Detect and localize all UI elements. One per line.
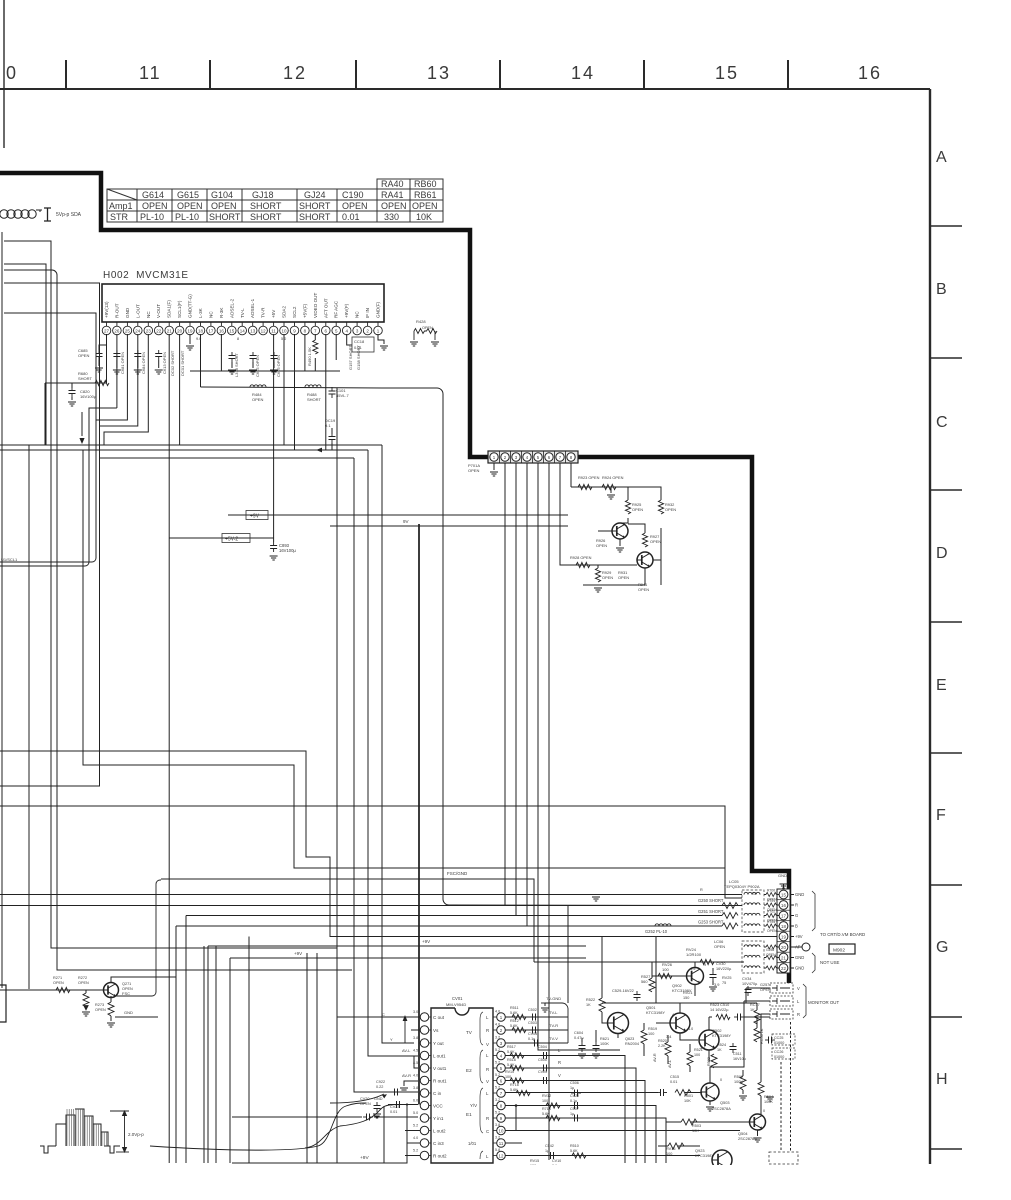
svg-text:R-3K: R-3K bbox=[219, 307, 224, 318]
svg-text:E: E bbox=[936, 677, 947, 694]
label RV21 bbox=[683, 991, 692, 1000]
svg-text:+9V: +9V bbox=[422, 939, 430, 944]
resistor R713 bbox=[546, 1115, 560, 1120]
connector pin 16 bbox=[777, 901, 790, 911]
svg-text:AV-R: AV-R bbox=[653, 1053, 657, 1062]
svg-text:RB60: RB60 bbox=[414, 179, 437, 189]
svg-text:FSC: FSC bbox=[122, 991, 130, 996]
svg-text:5.2: 5.2 bbox=[495, 1048, 500, 1052]
label C684 bbox=[141, 352, 146, 374]
CV01 left pin R out1 bbox=[420, 1076, 447, 1085]
label R271 bbox=[53, 976, 64, 985]
svg-text:R: R bbox=[558, 1060, 561, 1065]
svg-text:OPEN: OPEN bbox=[381, 201, 407, 211]
svg-text:14: 14 bbox=[571, 63, 595, 83]
svg-text:RV10: RV10 bbox=[505, 1070, 514, 1074]
svg-text:2.0Vp-p: 2.0Vp-p bbox=[128, 1132, 144, 1137]
svg-text:GJ18: GJ18 bbox=[252, 190, 274, 200]
svg-text:G252 PL-10: G252 PL-10 bbox=[645, 929, 668, 934]
svg-text:SDA1(F): SDA1(F) bbox=[167, 300, 172, 318]
wire pin27 +9V bbox=[45, 334, 107, 383]
svg-text:5.6K: 5.6K bbox=[542, 1112, 550, 1116]
svg-text:L-3K: L-3K bbox=[198, 307, 203, 318]
svg-text:4.0: 4.0 bbox=[495, 1023, 500, 1027]
wire bbox=[71, 397, 73, 400]
capacitor CV22 bbox=[571, 1102, 581, 1109]
transistor Q271 bbox=[104, 983, 119, 998]
resistor RC56 bbox=[754, 1028, 760, 1042]
wire RV24 row bbox=[534, 961, 744, 963]
svg-text:+5V: +5V bbox=[271, 309, 276, 318]
pin 10 of H002 bbox=[280, 306, 289, 335]
wire TV gnd loop bbox=[545, 1003, 568, 1043]
capacitor C604 bbox=[579, 1042, 586, 1052]
pin 15 of H002 bbox=[228, 298, 237, 334]
inductor LC05 row bbox=[744, 924, 760, 926]
wire pin stub bbox=[790, 915, 794, 917]
boxed part CC25 bbox=[772, 1034, 795, 1045]
svg-text:15: 15 bbox=[715, 63, 739, 83]
wire fan pin24 bbox=[100, 334, 138, 426]
wire base Q902 bbox=[652, 975, 687, 977]
svg-text:19: 19 bbox=[187, 328, 193, 333]
waveform staircase bbox=[40, 1109, 120, 1153]
wire pin3 drop bbox=[515, 463, 517, 916]
svg-text:100K: 100K bbox=[600, 1042, 609, 1046]
label R488 bbox=[307, 392, 321, 402]
label R941 bbox=[638, 582, 649, 592]
wire 9V vertical dark bbox=[418, 524, 420, 1105]
svg-text:Q271: Q271 bbox=[122, 982, 131, 986]
wire bbox=[742, 1090, 744, 1094]
svg-text:11: 11 bbox=[139, 63, 162, 83]
svg-text:4: 4 bbox=[672, 1013, 674, 1017]
wire Y in1 row left bbox=[232, 1116, 362, 1118]
wire bbox=[158, 360, 160, 368]
resistor R70x bbox=[766, 924, 776, 928]
label DC19 bbox=[325, 418, 336, 428]
svg-text:CV03: CV03 bbox=[528, 1032, 537, 1036]
label CV20 bbox=[360, 1097, 371, 1106]
svg-text:0.01: 0.01 bbox=[390, 1110, 397, 1114]
arrowhead down bbox=[79, 438, 84, 444]
wire base row bbox=[571, 486, 628, 488]
wire right vertical bbox=[660, 528, 662, 585]
resistor R680 bbox=[95, 380, 109, 385]
ground bbox=[578, 1054, 586, 1058]
delay line coil bbox=[0, 208, 51, 221]
capacitor C922 bbox=[391, 1089, 401, 1096]
svg-text:R428: R428 bbox=[416, 319, 426, 324]
label R519 bbox=[648, 1027, 657, 1036]
svg-text:GND: GND bbox=[374, 1097, 383, 1101]
ground bbox=[754, 1138, 762, 1142]
svg-text:AV-L: AV-L bbox=[668, 1060, 672, 1068]
transistor Q923 bbox=[712, 1150, 732, 1170]
wire emitter Q902 bbox=[694, 985, 696, 997]
svg-text:E2: E2 bbox=[466, 1068, 472, 1073]
svg-text:19: 19 bbox=[781, 934, 786, 939]
wire mid bus y371 bbox=[190, 370, 340, 372]
wire bbox=[273, 362, 275, 368]
label C101 bbox=[336, 388, 349, 398]
svg-text:NC: NC bbox=[146, 311, 151, 318]
label Q504 bbox=[738, 1131, 757, 1141]
CV01 right pin 8 bbox=[493, 1101, 505, 1110]
wire bbox=[137, 360, 139, 368]
label R484 bbox=[252, 392, 263, 402]
wire E2 L row bbox=[505, 1056, 625, 1164]
connector pin 20 bbox=[777, 943, 790, 953]
wire pin5 down bbox=[538, 463, 620, 1050]
pin 13 of H002 bbox=[248, 298, 257, 334]
ground bbox=[709, 987, 717, 991]
capacitor DC19 bbox=[329, 433, 336, 443]
ground bbox=[107, 1023, 115, 1027]
wire curve branch lower bbox=[305, 1126, 340, 1148]
wire C out feed bbox=[337, 1016, 420, 1018]
ground bbox=[410, 342, 418, 346]
capacitor C542 bbox=[547, 1152, 557, 1159]
ruler tick bbox=[209, 60, 211, 89]
waveform hatching bbox=[67, 1109, 106, 1146]
capacitor bbox=[765, 1037, 775, 1044]
svg-text:13: 13 bbox=[427, 63, 451, 83]
svg-text:R716: R716 bbox=[510, 1083, 519, 1087]
svg-text:G158 SHORT: G158 SHORT bbox=[356, 345, 361, 370]
resistor R273v bbox=[108, 1002, 114, 1016]
wire +9V drop x602 bbox=[601, 937, 603, 999]
wire left vertical x2 bbox=[1, 232, 3, 988]
wire pin19 bbox=[189, 334, 191, 344]
svg-text:MONITOR OUT: MONITOR OUT bbox=[808, 1000, 839, 1005]
capacitor C820 bbox=[69, 387, 76, 397]
svg-text:V out1: V out1 bbox=[433, 1066, 447, 1071]
connector pin 15 bbox=[777, 890, 790, 900]
ground bbox=[186, 346, 194, 350]
svg-text:R700: R700 bbox=[767, 889, 775, 893]
svg-text:5.2: 5.2 bbox=[495, 1111, 500, 1115]
CV01 right pin 2 bbox=[493, 1026, 505, 1035]
svg-text:OPEN: OPEN bbox=[632, 507, 643, 512]
dashed box LC06 bbox=[742, 941, 764, 973]
svg-text:+9V: +9V bbox=[795, 934, 803, 939]
resistor RV26 bbox=[658, 973, 672, 978]
svg-text:2SC2878A: 2SC2878A bbox=[712, 1106, 731, 1111]
label R501 bbox=[684, 1094, 693, 1103]
label R931 bbox=[618, 570, 629, 580]
label Q502 bbox=[712, 1028, 731, 1038]
svg-text:5.6K: 5.6K bbox=[570, 1149, 578, 1153]
wire pin stub bbox=[790, 946, 794, 948]
wire pin6 down bbox=[548, 463, 550, 1160]
svg-text:3.2: 3.2 bbox=[495, 1136, 500, 1140]
resistor R501h bbox=[675, 1090, 691, 1096]
wire 9V rail bbox=[330, 525, 568, 527]
label R490 bbox=[307, 347, 312, 366]
svg-text:V: V bbox=[558, 1073, 561, 1078]
svg-text:CC25: CC25 bbox=[774, 1036, 783, 1040]
capacitor C685 bbox=[96, 350, 103, 360]
svg-text:R520: R520 bbox=[658, 1039, 667, 1043]
wire arrow drop x82 bbox=[81, 412, 83, 436]
IC CV01 body bbox=[431, 1008, 493, 1163]
CV01 right pin 9 bbox=[493, 1114, 505, 1123]
svg-text:R out1: R out1 bbox=[433, 1078, 447, 1083]
svg-text:TV-L: TV-L bbox=[240, 308, 245, 318]
label G157 bbox=[348, 345, 353, 370]
svg-text:RV21: RV21 bbox=[683, 991, 692, 995]
svg-text:4.0: 4.0 bbox=[413, 1136, 418, 1140]
wire R out2 bbox=[405, 1155, 420, 1157]
label C506 bbox=[570, 1081, 579, 1090]
svg-text:RV12: RV12 bbox=[542, 1094, 551, 1098]
wire bbox=[764, 925, 766, 927]
svg-text:SHORT: SHORT bbox=[250, 212, 282, 222]
resistor R70x bbox=[766, 893, 776, 897]
label R927 bbox=[650, 534, 661, 544]
wire +9V left drop bbox=[44, 383, 46, 445]
svg-text:10K: 10K bbox=[416, 212, 432, 222]
svg-text:9: 9 bbox=[704, 962, 706, 967]
left sheet edge line bbox=[3, 0, 5, 148]
ground bbox=[594, 588, 602, 592]
svg-text:Q503: Q503 bbox=[720, 1100, 730, 1105]
label DC02 bbox=[170, 350, 175, 376]
svg-text:R511: R511 bbox=[510, 1006, 519, 1010]
wire x204 vertical bbox=[203, 946, 205, 1163]
label R273 bbox=[95, 1003, 106, 1012]
svg-text:Y/V: Y/V bbox=[470, 1103, 477, 1108]
label R524 bbox=[717, 1043, 726, 1052]
wire Q502 collector bbox=[708, 1017, 710, 1030]
wire bbox=[667, 1035, 669, 1042]
svg-text:OPEN: OPEN bbox=[422, 326, 433, 330]
wire to jack R bbox=[744, 1016, 770, 1018]
pin 3 of H002 bbox=[353, 311, 362, 335]
svg-text:1/01: 1/01 bbox=[468, 1141, 477, 1146]
transistor Q623 bbox=[608, 1013, 629, 1034]
wire row 12 bbox=[505, 1155, 700, 1157]
svg-text:V: V bbox=[486, 1079, 489, 1084]
wire FSC out bbox=[115, 880, 161, 996]
label Q271 bbox=[122, 982, 133, 991]
svg-text:NOT USE: NOT USE bbox=[820, 960, 840, 965]
connector pin 21 bbox=[777, 953, 790, 963]
svg-text:Y in1: Y in1 bbox=[433, 1116, 444, 1121]
wire bus x89 down bbox=[89, 408, 117, 562]
svg-text:C out: C out bbox=[433, 1015, 445, 1020]
label Q902 bbox=[672, 983, 692, 993]
wire pin1 gnd bbox=[493, 463, 495, 470]
pin 23 of H002 bbox=[144, 311, 153, 335]
pin 12 of H002 bbox=[259, 307, 268, 335]
svg-text:OPEN: OPEN bbox=[78, 981, 89, 985]
ground bbox=[780, 884, 788, 888]
svg-text:PL-10: PL-10 bbox=[140, 212, 164, 222]
svg-text:OPEN: OPEN bbox=[78, 353, 89, 358]
wire branch to TV gnd loop bbox=[567, 906, 569, 1004]
svg-text:+9V: +9V bbox=[250, 514, 260, 520]
svg-text:C511: C511 bbox=[733, 1052, 742, 1056]
svg-text:17: 17 bbox=[208, 328, 214, 333]
svg-text:TEPQ0304Y P902A: TEPQ0304Y P902A bbox=[724, 884, 760, 889]
label CV01 bbox=[452, 996, 463, 1001]
capacitor bbox=[229, 352, 236, 362]
wire base row 2 bbox=[573, 564, 637, 566]
wire bbox=[110, 1016, 112, 1021]
wire E2 V row bbox=[505, 1081, 645, 1164]
svg-text:TO CRT/D.VM BOARD: TO CRT/D.VM BOARD bbox=[820, 932, 865, 937]
wire collector bbox=[760, 1096, 762, 1115]
svg-text:560: 560 bbox=[641, 979, 648, 984]
label R522 bbox=[586, 998, 595, 1007]
CV01 right pin 10 bbox=[493, 1126, 505, 1135]
inductor R488 bbox=[305, 385, 321, 387]
svg-text:R: R bbox=[486, 1116, 489, 1121]
svg-text:R621: R621 bbox=[600, 1037, 609, 1041]
partial component left edge bbox=[0, 985, 6, 1022]
boxed label M902 bbox=[829, 944, 855, 954]
svg-text:5.0: 5.0 bbox=[281, 337, 286, 341]
row tick D/E bbox=[930, 621, 962, 623]
resistor R510 bbox=[572, 1153, 586, 1158]
svg-text:9V: 9V bbox=[403, 519, 409, 524]
svg-text:21: 21 bbox=[781, 955, 786, 960]
capacitor CV03 bbox=[531, 1040, 541, 1047]
label C616 bbox=[276, 355, 281, 377]
inductor G252 bbox=[655, 924, 671, 926]
label R512 bbox=[510, 1019, 519, 1028]
ground bbox=[607, 495, 615, 499]
svg-text:Y out: Y out bbox=[433, 1041, 444, 1046]
connector pin 17 bbox=[777, 911, 790, 921]
pin 24 of H002 bbox=[134, 304, 143, 335]
svg-text:KTC3198Y: KTC3198Y bbox=[646, 1010, 665, 1015]
svg-text:SCL2: SCL2 bbox=[292, 306, 297, 318]
svg-text:13: 13 bbox=[250, 328, 256, 333]
svg-text:20: 20 bbox=[781, 945, 786, 950]
wire emitter bbox=[110, 996, 112, 1002]
svg-text:18: 18 bbox=[781, 924, 786, 929]
label P701A bbox=[468, 463, 480, 473]
ground bbox=[490, 472, 498, 476]
wire pin8 down bbox=[570, 463, 572, 487]
svg-text:10K: 10K bbox=[692, 1129, 699, 1133]
transistor Q921 bbox=[612, 523, 628, 539]
ruler tick bbox=[65, 60, 67, 89]
wire vertical x354 to C in bbox=[354, 458, 414, 1092]
svg-text:0: 0 bbox=[6, 63, 16, 83]
pin 4 of H002 bbox=[342, 303, 351, 334]
svg-text:AV-L: AV-L bbox=[402, 1048, 411, 1053]
svg-text:OPEN: OPEN bbox=[412, 201, 438, 211]
svg-text:C190: C190 bbox=[342, 190, 364, 200]
ruler tick bbox=[643, 60, 645, 89]
ground bbox=[380, 346, 388, 350]
label C613 bbox=[162, 352, 167, 374]
wire y946 row bbox=[208, 945, 586, 947]
wire x176 vertical row18 bbox=[175, 926, 177, 1163]
connector pin 1 bbox=[490, 451, 500, 463]
ground bbox=[706, 1107, 714, 1111]
svg-text:L-OUT: L-OUT bbox=[135, 304, 140, 318]
ground bbox=[113, 370, 121, 374]
svg-text:R490 1.5K: R490 1.5K bbox=[307, 347, 312, 366]
svg-text:100: 100 bbox=[505, 1075, 511, 1079]
capacitor C684 bbox=[134, 350, 141, 360]
label C615 bbox=[255, 355, 260, 377]
svg-text:R-OUT: R-OUT bbox=[114, 303, 119, 318]
svg-text:R517: R517 bbox=[507, 1045, 516, 1049]
resistor R271 bbox=[56, 987, 70, 992]
svg-text:15: 15 bbox=[781, 892, 786, 897]
svg-text:GND: GND bbox=[795, 955, 804, 960]
svg-text:RA41: RA41 bbox=[381, 190, 404, 200]
label C604 bbox=[574, 1031, 584, 1040]
wire pin16 bbox=[220, 334, 222, 371]
capacitor C616 bbox=[271, 352, 278, 362]
wire jack L bbox=[744, 1000, 770, 1002]
svg-text:16V100µ: 16V100µ bbox=[80, 394, 97, 399]
svg-text:CV01: CV01 bbox=[452, 996, 463, 1001]
wire pin6 drop bbox=[325, 334, 327, 450]
svg-text:RC17: RC17 bbox=[750, 1003, 760, 1007]
svg-text:01000: 01000 bbox=[774, 1041, 784, 1045]
label C507 bbox=[570, 1107, 579, 1116]
svg-text:5.6K: 5.6K bbox=[510, 1011, 518, 1015]
svg-text:100: 100 bbox=[542, 1099, 548, 1103]
inductor LC05 row bbox=[744, 903, 760, 905]
transistor Q922 bbox=[637, 552, 653, 568]
wire pin5 bbox=[335, 334, 337, 360]
wire bbox=[85, 990, 87, 993]
wire vertical x337 bbox=[336, 388, 338, 1163]
svg-text:GND: GND bbox=[795, 966, 804, 971]
wire bbox=[252, 362, 254, 368]
wire row pin15 bbox=[0, 894, 742, 896]
svg-text:A: A bbox=[936, 149, 947, 166]
resistor R927 bbox=[642, 533, 647, 547]
svg-text:C in: C in bbox=[433, 1091, 442, 1096]
CV01 left pin L out2 bbox=[420, 1126, 446, 1135]
svg-text:14 16V22µ: 14 16V22µ bbox=[710, 1008, 729, 1012]
svg-text:C684 OPEN: C684 OPEN bbox=[141, 352, 146, 374]
ground bbox=[616, 548, 624, 552]
ruler tick bbox=[355, 60, 357, 89]
resistor R272v bbox=[83, 993, 89, 1007]
label R926 bbox=[596, 538, 607, 548]
svg-text:20: 20 bbox=[177, 328, 183, 333]
svg-text:22: 22 bbox=[156, 328, 162, 333]
thick schematic border bbox=[0, 173, 789, 983]
svg-text:3.2: 3.2 bbox=[495, 1098, 500, 1102]
arrowhead curve bbox=[382, 1094, 387, 1098]
wire bbox=[581, 1038, 583, 1042]
svg-text:R510: R510 bbox=[570, 1144, 579, 1148]
svg-text:R out2: R out2 bbox=[433, 1153, 447, 1158]
svg-text:NC: NC bbox=[355, 311, 360, 318]
wire DC19 stem bbox=[331, 428, 333, 434]
svg-text:R518: R518 bbox=[507, 1058, 516, 1062]
resistor G251 bbox=[722, 913, 738, 919]
label RV16 bbox=[666, 1147, 675, 1156]
wire emitter to Q502 bbox=[680, 1033, 698, 1040]
svg-text:0.1µ: 0.1µ bbox=[528, 1037, 536, 1041]
svg-text:V-OUT: V-OUT bbox=[156, 304, 161, 318]
wire pin stub bbox=[790, 925, 794, 927]
ruler tick bbox=[499, 60, 501, 89]
